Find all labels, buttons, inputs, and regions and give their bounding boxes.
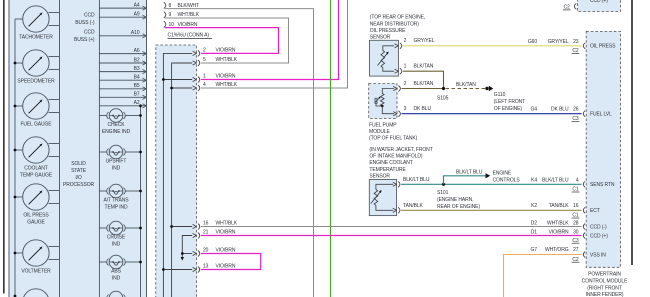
svg-text:TEMP IND: TEMP IND: [105, 205, 128, 211]
oil pressure sensor location text: [370, 15, 425, 41]
cruise indicator lamp: [99, 221, 140, 247]
svg-text:STATE: STATE: [71, 168, 87, 174]
lamp feed bus (vertical wire x=140): [140, 106, 142, 297]
fuel pump module (dashed box): [369, 84, 397, 119]
svg-text:K2: K2: [531, 203, 537, 209]
svg-text:S101: S101: [437, 190, 449, 196]
right page-edge bar: [631, 0, 633, 265]
fuel pump pin 2: [393, 81, 434, 92]
svg-text:WHT/ORG: WHT/ORG: [545, 247, 569, 253]
ECT thermistor: [371, 184, 393, 210]
svg-text:BLK/LT BLU: BLK/LT BLU: [542, 177, 569, 183]
wire pin 16 WHT/BLK to PCM CCD (-): [201, 226, 582, 228]
wire pin 4 WHT/BLK (up off page): [201, 0, 348, 88]
cluster harness connector (dashed box): [156, 45, 197, 297]
dashed ground wire BLK/TAN to G110: [446, 82, 486, 88]
svg-text:5: 5: [203, 57, 206, 63]
svg-text:B3: B3: [134, 66, 140, 72]
wire 8 BLK/WHT (gray, down off page): [165, 9, 314, 297]
fuel level sender (rheostat): [375, 89, 394, 114]
svg-text:G110: G110: [494, 92, 506, 98]
svg-text:C1%%U (CONN A): C1%%U (CONN A): [168, 33, 210, 39]
wire BLK/TAN pump to S105: [402, 88, 444, 90]
svg-text:VIO/BRN: VIO/BRN: [216, 48, 236, 54]
svg-text:1: 1: [404, 64, 407, 70]
coolant temp gauge: [15, 137, 59, 179]
internal junction dots: [162, 78, 184, 271]
svg-text:IND: IND: [112, 242, 121, 248]
svg-text:ECT: ECT: [590, 208, 600, 214]
svg-text:CCD (+): CCD (+): [590, 0, 608, 4]
svg-text:G7: G7: [531, 247, 538, 253]
svg-text:SENSOR: SENSOR: [370, 35, 391, 41]
svg-text:WHT/BLK: WHT/BLK: [216, 57, 238, 63]
connector pin 20 VIO/BRN: [193, 248, 236, 257]
wire pin 1 VIO/BRN (up off page): [201, 0, 339, 80]
wire pin 21 VIO/BRN to PCM CCD (+): [201, 235, 582, 237]
VIO/BRN internal bus wire: [163, 53, 192, 297]
svg-text:8: 8: [169, 3, 172, 9]
svg-text:OIL PRESS: OIL PRESS: [590, 44, 616, 50]
svg-text:A9: A9: [134, 12, 140, 18]
svg-text:BLK/WHT: BLK/WHT: [178, 3, 200, 9]
svg-text:B5: B5: [134, 83, 140, 89]
svg-text:G60: G60: [528, 39, 537, 45]
svg-text:BLK/TAN: BLK/TAN: [456, 82, 476, 88]
svg-text:A6: A6: [134, 48, 140, 54]
svg-text:A/T TRANS: A/T TRANS: [103, 198, 129, 204]
cluster pin A9: [99, 12, 146, 20]
svg-text:10: 10: [169, 22, 175, 28]
branch BLK/LT BLU to engine controls: [444, 169, 521, 184]
svg-text:3: 3: [404, 106, 407, 112]
svg-text:(TOP OF FUEL TANK): (TOP OF FUEL TANK): [369, 136, 418, 142]
svg-text:CRUISE: CRUISE: [107, 235, 126, 241]
connector pin 1 VIO/BRN: [193, 74, 236, 83]
tachometer gauge: [15, 6, 59, 41]
svg-text:VIO/BRN: VIO/BRN: [216, 248, 236, 254]
cluster pin B4: [99, 75, 146, 83]
svg-text:D2: D2: [531, 220, 538, 226]
svg-text:UPSHIFT: UPSHIFT: [106, 159, 127, 165]
svg-text:ABS: ABS: [111, 269, 121, 275]
svg-text:WHT/BLK: WHT/BLK: [216, 221, 238, 227]
svg-text:C2: C2: [564, 4, 571, 10]
terminal 8 BLK/WHT: [164, 2, 199, 9]
svg-text:D1: D1: [531, 229, 538, 235]
svg-text:G4: G4: [531, 107, 538, 113]
oil sensor pin 1: [395, 64, 434, 75]
svg-text:16: 16: [203, 221, 209, 227]
svg-text:4: 4: [203, 82, 206, 88]
cluster pin A2: [99, 100, 146, 108]
svg-text:SOLID: SOLID: [71, 161, 86, 167]
internal wire pin 4: [172, 87, 193, 89]
svg-text:I/O: I/O: [75, 175, 82, 181]
splice S101: [437, 183, 480, 210]
svg-text:2: 2: [404, 38, 407, 44]
svg-text:BLK/LT BLU: BLK/LT BLU: [456, 169, 483, 175]
svg-text:ENGINE: ENGINE: [493, 170, 512, 176]
svg-text:FUEL LVL: FUEL LVL: [590, 112, 612, 118]
SOLID STATE I/O PROCESSOR label: [63, 161, 95, 188]
instrument cluster (panel background): [9, 0, 147, 297]
svg-text:30: 30: [573, 229, 579, 235]
svg-text:(RIGHT FRONT: (RIGHT FRONT: [587, 285, 622, 291]
bottom gauge (cut off): [23, 289, 49, 297]
svg-text:CCD (-): CCD (-): [590, 224, 607, 230]
svg-text:VIO/BRN: VIO/BRN: [178, 22, 198, 28]
PCM pin 28 CCD (-): [531, 220, 607, 230]
svg-text:CHECK: CHECK: [107, 122, 125, 128]
left page-edge bar: [3, 0, 5, 294]
svg-text:TACHOMETER: TACHOMETER: [19, 35, 53, 41]
cluster pin B3: [99, 66, 146, 74]
a/t trans temp indicator lamp: [99, 184, 140, 210]
PCM pin 16 ECT: [531, 203, 600, 219]
svg-text:INNER FENDER): INNER FENDER): [586, 292, 624, 297]
wire BLK/LT BLU to S101 and PCM SENS RTN: [401, 183, 581, 185]
svg-text:9: 9: [169, 12, 172, 18]
svg-text:26: 26: [573, 107, 579, 113]
svg-text:BLK/TAN: BLK/TAN: [414, 64, 434, 70]
svg-text:B7: B7: [134, 92, 140, 98]
svg-text:MODULE: MODULE: [369, 129, 391, 135]
terminal 9 WHT/BLK: [164, 12, 200, 19]
svg-text:13: 13: [203, 264, 209, 270]
gauge bus junction dots: [14, 62, 17, 297]
svg-text:BUSS (+): BUSS (+): [74, 37, 95, 43]
svg-text:28: 28: [573, 220, 579, 226]
svg-text:WHT/BLK: WHT/BLK: [178, 12, 200, 18]
wire 9 WHT/BLK to pin 5: [165, 18, 289, 63]
fuel gauge: [15, 93, 59, 128]
svg-text:CCD: CCD: [84, 12, 95, 18]
connector pin 2 VIO/BRN: [193, 48, 236, 57]
svg-text:GRY/YEL: GRY/YEL: [548, 39, 569, 45]
wire TAN/BLK to PCM ECT: [401, 209, 581, 211]
svg-text:VSS IN: VSS IN: [590, 252, 606, 258]
svg-text:IND: IND: [112, 166, 121, 172]
connector pin 21 VIO/BRN: [193, 230, 236, 239]
svg-text:OF ENGINE): OF ENGINE): [494, 106, 523, 112]
cluster pin A10: [99, 30, 146, 38]
connector pin 4 WHT/BLK: [193, 82, 238, 91]
svg-text:VIO/BRN: VIO/BRN: [216, 264, 236, 270]
svg-text:(IN WATER JACKET, FRONT: (IN WATER JACKET, FRONT: [369, 147, 432, 153]
WHT/BLK internal bus wire: [172, 63, 193, 297]
svg-text:POWERTRAIN: POWERTRAIN: [588, 272, 621, 278]
fuel pump pin 3: [393, 106, 431, 117]
PCM pin 4 SENS RTN: [531, 177, 615, 192]
svg-text:A4: A4: [134, 3, 140, 9]
oil pressure sensor (box): [369, 40, 398, 76]
svg-text:FUEL GAUGE: FUEL GAUGE: [20, 122, 52, 128]
svg-text:CONTROLS: CONTROLS: [493, 177, 521, 183]
cut-off module at top right (dashed box): [578, 0, 621, 12]
svg-text:SENS RTN: SENS RTN: [590, 182, 615, 188]
svg-text:TAN/BLK: TAN/BLK: [403, 203, 424, 209]
ECT sensor location text: [369, 147, 432, 180]
svg-text:(LEFT FRONT: (LEFT FRONT: [494, 99, 525, 105]
svg-text:ENGINE IND: ENGINE IND: [102, 129, 131, 135]
svg-text:COOLANT: COOLANT: [24, 166, 48, 172]
svg-text:16: 16: [573, 203, 579, 209]
internal wire pin 13: [163, 269, 192, 271]
svg-text:TAN/BLK: TAN/BLK: [549, 203, 570, 209]
splice S105: [437, 87, 449, 101]
svg-text:DK BLU: DK BLU: [551, 107, 569, 113]
internal wire pin 1: [163, 79, 192, 81]
svg-text:NEAR DISTRIBUTOR): NEAR DISTRIBUTOR): [370, 21, 419, 27]
svg-text:GAUGE: GAUGE: [27, 220, 45, 226]
wire WHT/ORG to PCM VSS IN: [504, 255, 582, 297]
continuation arrow (down): [181, 257, 184, 261]
svg-text:2: 2: [203, 48, 206, 54]
svg-text:1: 1: [203, 74, 206, 80]
cluster pin A4: [99, 3, 146, 11]
svg-text:SPEEDOMETER: SPEEDOMETER: [17, 79, 55, 85]
svg-text:PROCESSOR: PROCESSOR: [63, 182, 95, 188]
terminal 10 VIO/BRN: [164, 21, 198, 28]
connector pin 16 WHT/BLK: [193, 221, 238, 230]
ECT sensor (box): [369, 180, 396, 216]
bottom indicator lamp (cut off): [99, 291, 140, 297]
svg-text:B4: B4: [134, 75, 140, 81]
svg-text:VIO/BRN: VIO/BRN: [549, 229, 569, 235]
oil press gauge: [15, 184, 59, 226]
svg-text:IND: IND: [112, 276, 121, 282]
cluster pin B5: [99, 83, 146, 91]
cluster pin B7: [99, 92, 146, 100]
ECT pin TAN/BLK: [393, 203, 424, 213]
ECT pin BLK/LT BLU: [393, 177, 430, 187]
svg-text:REAR OF ENGINE): REAR OF ENGINE): [437, 204, 480, 210]
svg-text:GRY/YEL: GRY/YEL: [414, 38, 435, 44]
powertrain control module (dashed box): [586, 31, 620, 267]
svg-text:(TOP REAR OF ENGINE,: (TOP REAR OF ENGINE,: [370, 15, 425, 21]
connector pin 5 WHT/BLK: [193, 57, 238, 66]
svg-text:K4: K4: [531, 177, 537, 183]
svg-text:CCD: CCD: [84, 30, 95, 36]
gauge supply bus (vertical wire x=15): [14, 19, 16, 296]
oil pressure sensor variable resistor: [378, 46, 395, 71]
CCD BUSS (-) label: [75, 12, 95, 26]
svg-text:TEMP GAUGE: TEMP GAUGE: [20, 173, 53, 179]
svg-text:(ENGINE HARN,: (ENGINE HARN,: [437, 197, 473, 203]
svg-text:27: 27: [573, 247, 579, 253]
CCD BUSS (+) label: [74, 30, 95, 44]
ground G110: [485, 86, 525, 112]
cluster pin B2: [99, 57, 146, 65]
svg-text:21: 21: [203, 230, 209, 236]
svg-text:OF INTAKE MANIFOLD): OF INTAKE MANIFOLD): [369, 154, 422, 160]
wire GRY/YEL to PCM OIL PRESS: [403, 45, 582, 47]
svg-text:CONTROL MODULE: CONTROL MODULE: [582, 278, 628, 284]
svg-text:A10: A10: [131, 30, 140, 36]
connector pin 13 VIO/BRN: [193, 264, 236, 273]
wire DK BLU to PCM FUEL LVL: [402, 113, 582, 115]
cluster internal divider x=59: [59, 0, 61, 297]
svg-text:VIO/BRN: VIO/BRN: [216, 74, 236, 80]
internal wire pin 20: [182, 253, 192, 255]
internal jog pin 21 to pin 20: [182, 236, 192, 258]
svg-text:CCD (+): CCD (+): [590, 233, 608, 239]
oil sensor pin 2: [395, 38, 435, 49]
wire BLK/TAN sensor to S105: [403, 71, 444, 88]
svg-text:23: 23: [573, 39, 579, 45]
cluster internal divider x=99.4: [98, 0, 100, 297]
svg-text:VIO/BRN: VIO/BRN: [216, 230, 236, 236]
wire 10 VIO/BRN to pin 2: [165, 28, 279, 54]
speedometer gauge: [15, 50, 59, 85]
pass-through wire (green, full height): [330, 0, 332, 297]
svg-text:TEMPERATURE: TEMPERATURE: [369, 167, 406, 173]
svg-text:BUSS (-): BUSS (-): [75, 20, 95, 26]
svg-text:SENSOR: SENSOR: [369, 174, 390, 180]
PCM pin 30 CCD (+): [531, 229, 608, 244]
abs indicator lamp: [99, 255, 140, 281]
svg-text:B2: B2: [134, 57, 140, 63]
PCM pin 23 OIL PRESS: [528, 39, 616, 54]
svg-text:FUEL PUMP: FUEL PUMP: [369, 123, 397, 129]
svg-text:OIL PRESS: OIL PRESS: [23, 213, 49, 219]
internal wire pin 16: [172, 226, 193, 228]
svg-text:WHT/BLK: WHT/BLK: [216, 82, 238, 88]
svg-text:A2: A2: [134, 100, 140, 106]
PCM name text: [582, 272, 628, 297]
connector label C1%%U (CONN A): [168, 33, 213, 39]
upshift indicator lamp: [99, 145, 140, 171]
svg-text:BLK/LT BLU: BLK/LT BLU: [403, 177, 430, 183]
svg-text:ENGINE COOLANT: ENGINE COOLANT: [369, 160, 412, 166]
svg-text:4: 4: [576, 177, 579, 183]
cut-off module pin C2: [563, 3, 577, 10]
fuel pump module location text: [369, 123, 418, 142]
check engine indicator lamp: [99, 109, 140, 135]
svg-text:WHT/BLK: WHT/BLK: [547, 220, 569, 226]
PCM pin 27 VSS IN: [531, 247, 607, 263]
svg-text:DK BLU: DK BLU: [414, 106, 432, 112]
cluster pin A6: [99, 48, 146, 56]
wire loop pin 20 to pin 13 VIO/BRN: [201, 254, 261, 270]
svg-text:BLK/TAN: BLK/TAN: [414, 81, 434, 87]
lamp bus junction dots: [139, 104, 142, 263]
svg-text:20: 20: [203, 248, 209, 254]
svg-text:OIL PRESSURE: OIL PRESSURE: [370, 28, 406, 34]
voltmeter gauge: [15, 240, 59, 275]
svg-text:S105: S105: [437, 95, 449, 101]
PCM pin 26 FUEL LVL: [531, 107, 613, 122]
svg-text:VOLTMETER: VOLTMETER: [21, 269, 51, 275]
svg-text:2: 2: [404, 81, 407, 87]
